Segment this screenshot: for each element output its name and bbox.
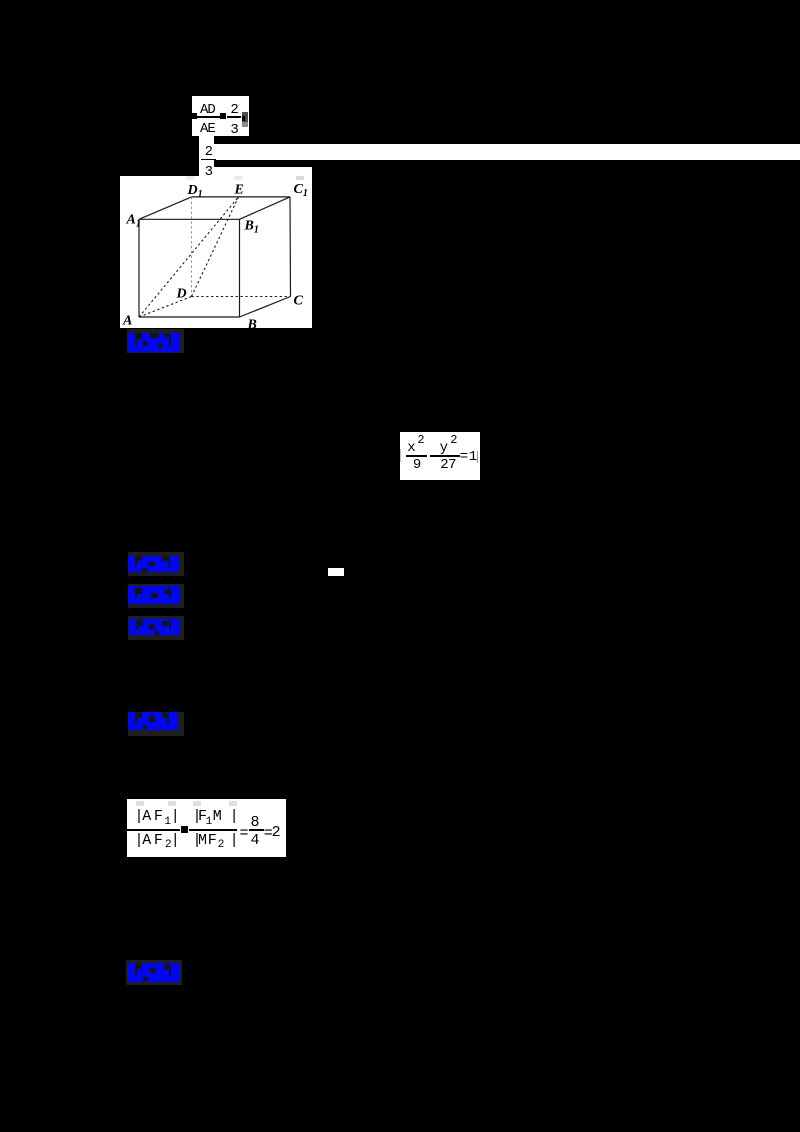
equation box x^2/9 - y^2/27 = 1 (400, 432, 480, 480)
cube figure box (120, 176, 312, 328)
blue label 5 (128, 712, 184, 736)
wire C1-C back right vertical (289, 197, 292, 297)
white column behind 2/3 (199, 135, 215, 176)
wire D-C dashed (191, 296, 290, 298)
blue label 2 (128, 552, 184, 576)
wire A-D dashed (139, 297, 192, 318)
blue label 4 (128, 616, 184, 640)
svg-text:B1: B1 (243, 219, 258, 236)
formula box AD/AE = 2/3 (192, 96, 249, 136)
wire D1-D dashed (190, 197, 192, 297)
long white strip (199, 144, 800, 160)
wire B-C (239, 297, 290, 318)
fraction bar 2 (189, 829, 238, 831)
equals blob (220, 113, 226, 119)
fraction box |AF1|/|AF2| = |F1M|/|MF2| = 8/4 = 2 (127, 799, 286, 857)
blue label 3 (128, 584, 184, 607)
wire A-E dashed (139, 197, 239, 317)
fraction bar 2/3 (227, 116, 241, 118)
fraction bar (201, 159, 216, 161)
comma artifact (242, 112, 248, 122)
svg-text:C1: C1 (293, 182, 307, 199)
equals blob (181, 826, 188, 833)
wire A1-D1 (139, 197, 192, 219)
wire A-B front bottom (139, 316, 240, 318)
svg-text:C: C (293, 294, 303, 309)
svg-text:A1: A1 (125, 213, 140, 230)
wire D-E dashed (191, 197, 238, 297)
wire B1-C1 (239, 197, 290, 219)
fraction bar AD/AE (197, 116, 226, 118)
svg-text:E: E (233, 182, 243, 197)
svg-text:B: B (246, 318, 256, 330)
svg-text:D: D (175, 287, 186, 302)
fraction bar 1 (127, 829, 180, 831)
standalone fraction 2/3 (205, 144, 213, 160)
wire A-A1 front left vertical (138, 219, 140, 317)
fraction bar 8/4 (249, 829, 264, 831)
blue label 1 (after figure) (127, 329, 185, 353)
white dash (328, 568, 344, 576)
wire B-B1 front right vertical (238, 219, 240, 317)
svg-text:D1: D1 (186, 183, 202, 200)
wire D1-C1 top back (191, 196, 290, 198)
wire A1-B1 front top (139, 218, 240, 220)
svg-text:A: A (122, 314, 132, 329)
blue label 6 (126, 960, 182, 985)
artifact blob left of bar (192, 113, 197, 119)
